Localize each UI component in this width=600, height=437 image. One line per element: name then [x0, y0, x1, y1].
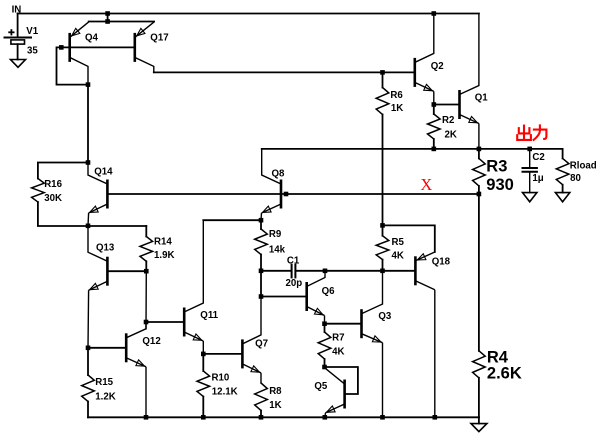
- wire Q3 base: [325, 323, 362, 325]
- junction Q5 emitter on ground rail: [323, 415, 328, 420]
- svg-text:Q4: Q4: [85, 33, 99, 44]
- wire Q7 base: [203, 353, 242, 355]
- svg-text:R9: R9: [269, 229, 282, 240]
- resistor R2: [428, 105, 441, 149]
- label Q1: [475, 93, 489, 104]
- svg-text:Q18: Q18: [432, 256, 451, 267]
- resistor R5: [376, 225, 389, 270]
- svg-text:2K: 2K: [445, 130, 457, 141]
- wire Q12 base: [88, 347, 126, 349]
- wire R14 to Q12 collector: [145, 271, 147, 329]
- label R2: [442, 115, 454, 126]
- svg-text:Q8: Q8: [272, 169, 286, 180]
- svg-text:R7: R7: [332, 333, 344, 344]
- wire Q17 collector to Q2 base: [154, 71, 415, 73]
- svg-text:35: 35: [27, 45, 38, 56]
- ground C2: [523, 193, 537, 202]
- junction Q14 emitter node: [86, 224, 91, 229]
- svg-text:R2: R2: [442, 115, 454, 126]
- junction Q12 collector / Q11 base: [144, 320, 149, 325]
- resistor R7: [318, 324, 331, 367]
- junction Q8 emitter / R9 top: [259, 218, 264, 223]
- label R14: [154, 236, 172, 247]
- svg-text:Q1: Q1: [475, 93, 489, 104]
- junction Q11 emitter / R10 / Q7 base: [201, 352, 206, 357]
- junction C1 right / Q6 collector: [323, 269, 328, 274]
- junction R14 bottom / Q13 base: [144, 269, 149, 274]
- junction Q6 base / Q7 collector: [259, 294, 264, 299]
- label R2 value 2K: [445, 130, 457, 141]
- svg-text:R3: R3: [486, 157, 507, 175]
- junction Q12 base / R15 top: [86, 346, 91, 351]
- svg-text:Q17: Q17: [150, 33, 168, 44]
- junction R5 top / Q18 emitter tie: [380, 223, 385, 228]
- wire Q18 emitter loop: [383, 225, 435, 252]
- label Q5: [314, 381, 328, 392]
- svg-text:R16: R16: [44, 179, 62, 190]
- label R4 value 2.6K: [487, 364, 522, 382]
- svg-text:1K: 1K: [391, 103, 403, 114]
- transistor Q8: [261, 149, 281, 220]
- resistor R9: [255, 220, 268, 271]
- wire mirror bottom tie: [88, 225, 146, 227]
- junction Q6 emitter / R7 top / Q3 base: [322, 321, 327, 326]
- label Q7: [255, 339, 268, 350]
- svg-text:R5: R5: [392, 237, 405, 248]
- ground Rload: [555, 193, 569, 202]
- svg-text:Q13: Q13: [96, 243, 115, 254]
- transistor Q12: [126, 322, 146, 417]
- svg-text:20p: 20p: [286, 278, 303, 289]
- svg-text:R14: R14: [154, 236, 172, 247]
- resistor Rload: [556, 149, 569, 193]
- svg-text:2.6K: 2.6K: [487, 364, 522, 382]
- wire bridge to rail link: [107, 14, 109, 22]
- svg-text:30K: 30K: [44, 193, 62, 204]
- junction R7 bottom / Q5: [322, 365, 327, 370]
- label R3 value 930: [486, 176, 514, 194]
- capacitor C1: [261, 265, 325, 278]
- svg-text:Q3: Q3: [378, 311, 392, 322]
- label Q6: [322, 286, 336, 297]
- label R16: [44, 179, 62, 190]
- junction Q4 collector node: [86, 82, 91, 87]
- junction R10 bottom on ground rail: [201, 415, 206, 420]
- wire V1 to ground: [17, 44, 19, 59]
- label R5 value 4K: [392, 251, 404, 262]
- wire Q4 collector down-line: [87, 85, 89, 163]
- svg-text:Q6: Q6: [322, 286, 336, 297]
- svg-text:V1: V1: [26, 26, 38, 37]
- wire Q5 base loop: [325, 367, 358, 394]
- resistor R8: [255, 383, 268, 417]
- label IN net: [12, 5, 22, 16]
- svg-text:1μ: 1μ: [532, 173, 543, 184]
- svg-text:Q7: Q7: [255, 339, 268, 350]
- label R9: [269, 229, 282, 240]
- junction Q18 collector on ground rail: [433, 415, 438, 420]
- svg-text:C1: C1: [287, 255, 300, 266]
- transistor Q13: [88, 226, 107, 348]
- svg-text:4K: 4K: [392, 251, 404, 262]
- label R4: [487, 349, 509, 367]
- wire ground rail: [88, 416, 479, 418]
- svg-text:R6: R6: [390, 90, 403, 101]
- resistor R15: [82, 348, 95, 418]
- label output (shutsuryoku) red: [517, 125, 546, 139]
- junction Q3 emitter on ground rail: [380, 415, 385, 420]
- label node X red: [420, 175, 432, 194]
- transistor Q3: [362, 271, 383, 418]
- junction R5 bottom / Q3 collector / Q18 base: [380, 269, 385, 274]
- wire Q4-Q17 emitter bridge: [89, 21, 154, 23]
- label Rload value 80: [570, 173, 581, 184]
- wire R9 line between C1 and Q6-base nodes: [260, 271, 262, 297]
- junction Q2 emitter / Q1 base / R2 top: [432, 102, 437, 107]
- label R8 value 1K: [269, 400, 281, 411]
- svg-text:4K: 4K: [332, 347, 344, 358]
- resistor R14: [140, 226, 153, 271]
- transistor Q2: [415, 14, 434, 105]
- svg-text:80: 80: [570, 173, 581, 184]
- label R6: [390, 90, 403, 101]
- label C2: [532, 152, 544, 163]
- label R14 value 1.9K: [154, 250, 174, 261]
- svg-text:R8: R8: [269, 386, 282, 397]
- svg-text:C2: C2: [532, 152, 544, 163]
- svg-text:1K: 1K: [269, 400, 281, 411]
- svg-text:R15: R15: [95, 377, 113, 388]
- wire node X rail: [107, 193, 479, 195]
- label Rload: [570, 161, 597, 172]
- label R5: [392, 237, 405, 248]
- capacitor C2: [523, 149, 537, 193]
- resistor R3: [473, 149, 486, 194]
- label R9 value 14k: [269, 245, 286, 256]
- wire Q11 collector to Q8 emitter: [203, 219, 261, 221]
- svg-text:1.9K: 1.9K: [154, 250, 174, 261]
- junction rail-link top: [105, 11, 110, 16]
- svg-text:R10: R10: [212, 373, 230, 384]
- resistor R4: [473, 194, 486, 417]
- label V1: [26, 26, 38, 37]
- label R8: [269, 386, 282, 397]
- label Q4: [85, 33, 99, 44]
- svg-text:Q12: Q12: [142, 336, 160, 347]
- label Q11: [200, 310, 218, 321]
- ground V1: [11, 60, 26, 68]
- transistor Q7: [242, 297, 261, 384]
- junction Q12 emitter on ground rail: [144, 415, 149, 420]
- wire Q1 base: [434, 104, 460, 106]
- junction Q8 base on X rail: [284, 192, 289, 197]
- ground main: [471, 417, 487, 431]
- transistor Q18: [415, 252, 434, 417]
- label R3: [486, 157, 507, 175]
- wire Q4 base to mirror tie: [57, 47, 89, 84]
- label Q13: [96, 243, 115, 254]
- transistor Q5: [325, 368, 345, 417]
- svg-text:14k: 14k: [269, 245, 286, 256]
- label Q17: [150, 33, 168, 44]
- svg-text:Rload: Rload: [570, 161, 597, 172]
- voltage source V1 battery symbol: [5, 29, 32, 44]
- junction R9 bottom / C1 left: [259, 269, 264, 274]
- junction R6 top: [380, 70, 385, 75]
- resistor R16: [32, 163, 88, 227]
- junction R3 bottom node X: [477, 192, 482, 197]
- label C1: [287, 255, 300, 266]
- junction R8 bottom on ground rail: [259, 415, 264, 420]
- svg-text:Q2: Q2: [431, 61, 444, 72]
- transistor Q11: [184, 220, 203, 354]
- label R10 value 12.1K: [212, 387, 238, 398]
- junction rail-link bottom: [105, 19, 110, 24]
- transistor Q1: [460, 14, 479, 149]
- label Q18: [432, 256, 451, 267]
- transistor Q4: [70, 22, 89, 85]
- svg-text:Q11: Q11: [200, 310, 218, 321]
- wire C1 to Q18 base: [325, 270, 415, 272]
- label R15: [95, 377, 113, 388]
- svg-text:1.2K: 1.2K: [95, 392, 115, 403]
- svg-text:Q5: Q5: [314, 381, 328, 392]
- label C1 value 20p: [286, 278, 303, 289]
- junction Q2 collector on rail: [432, 11, 437, 16]
- wire Q6 base: [261, 296, 307, 298]
- wire top supply rail: [18, 13, 479, 15]
- wire V1 top lead: [17, 14, 19, 38]
- label C2 value 1u: [532, 173, 543, 184]
- label Q12: [142, 336, 160, 347]
- resistor R6: [376, 72, 389, 225]
- label R16 value 30K: [44, 193, 62, 204]
- svg-text:12.1K: 12.1K: [212, 387, 238, 398]
- wire Q4-Q17 base link: [70, 46, 135, 48]
- svg-text:930: 930: [486, 176, 514, 194]
- transistor Q14: [88, 163, 107, 226]
- junction R2 bottom on output rail: [432, 147, 437, 152]
- label R7 value 4K: [332, 347, 344, 358]
- label Q2: [431, 61, 444, 72]
- label Q3: [378, 311, 392, 322]
- resistor R10: [197, 354, 210, 417]
- label Q14: [94, 167, 113, 178]
- label Q8: [272, 169, 286, 180]
- junction Q1 emitter / R3 top: [477, 147, 482, 152]
- svg-text:Q14: Q14: [94, 167, 113, 178]
- label R10: [212, 373, 230, 384]
- svg-text:X: X: [420, 175, 432, 194]
- label V1 value 35: [27, 45, 38, 56]
- wire output rail: [262, 148, 563, 150]
- transistor Q6: [307, 271, 325, 324]
- junction C2 top: [527, 147, 532, 152]
- label R7: [332, 333, 344, 344]
- label R6 value 1K: [391, 103, 403, 114]
- label R15 value 1.2K: [95, 392, 115, 403]
- junction R16 top: [86, 160, 91, 165]
- junction Q4 base: [59, 45, 64, 50]
- wire Q11 base: [146, 321, 184, 323]
- wire Q13 base: [107, 270, 146, 272]
- transistor Q17: [135, 22, 154, 73]
